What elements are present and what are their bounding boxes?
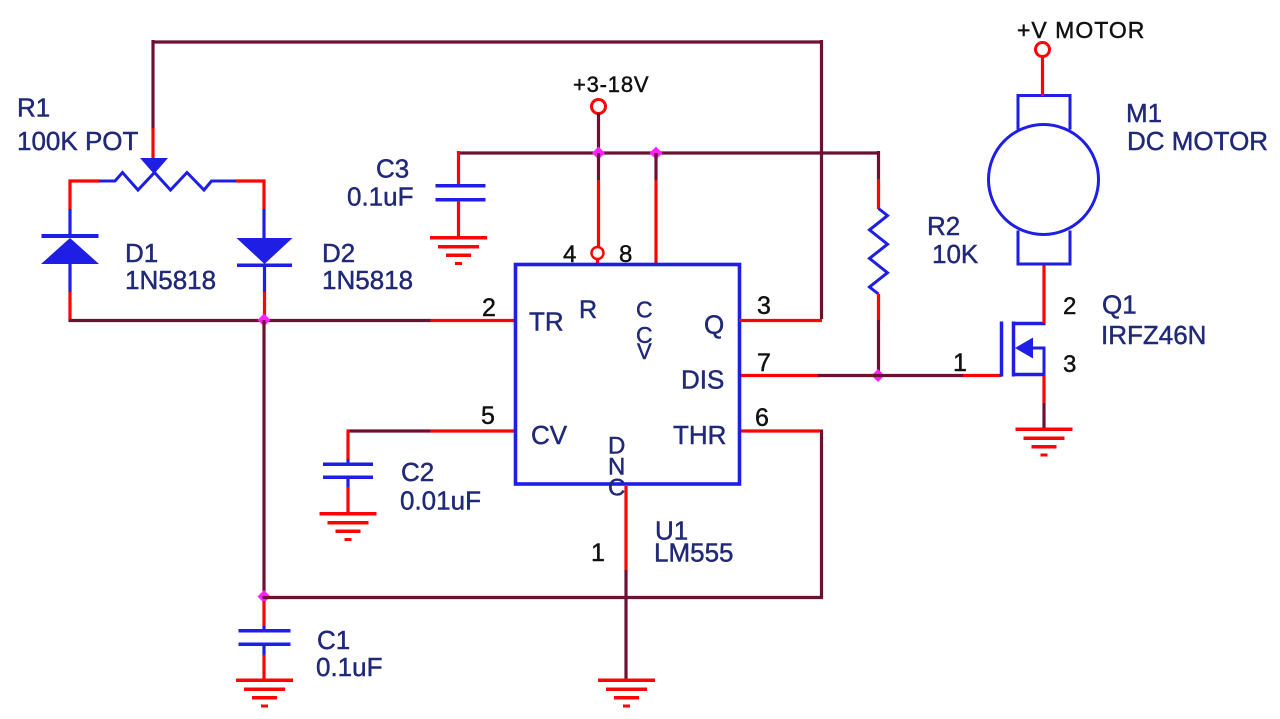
svg-text:V: V	[637, 339, 652, 364]
svg-text:C3: C3	[376, 154, 409, 184]
svg-text:D1: D1	[125, 238, 158, 268]
svg-text:R1: R1	[17, 93, 50, 123]
svg-text:CV: CV	[531, 420, 568, 450]
svg-text:TR: TR	[529, 307, 564, 337]
svg-text:2: 2	[1063, 293, 1076, 320]
svg-text:7: 7	[757, 349, 771, 377]
svg-text:10K: 10K	[932, 239, 979, 269]
svg-text:Q1: Q1	[1102, 290, 1137, 320]
svg-text:C: C	[608, 475, 625, 502]
svg-text:+V MOTOR: +V MOTOR	[1017, 17, 1145, 43]
svg-text:M1: M1	[1126, 98, 1162, 128]
svg-text:Q: Q	[704, 310, 724, 340]
svg-text:1: 1	[591, 539, 605, 567]
svg-text:100K POT: 100K POT	[17, 126, 139, 156]
svg-text:5: 5	[481, 402, 495, 430]
svg-text:2: 2	[482, 294, 496, 322]
svg-text:R2: R2	[927, 211, 960, 241]
svg-text:4: 4	[563, 241, 576, 268]
svg-text:THR: THR	[673, 420, 726, 450]
svg-text:C2: C2	[401, 457, 434, 487]
svg-text:1N5818: 1N5818	[322, 265, 413, 295]
svg-text:DIS: DIS	[681, 365, 724, 395]
svg-text:C1: C1	[317, 625, 350, 655]
svg-text:DC MOTOR: DC MOTOR	[1127, 126, 1268, 156]
svg-text:D2: D2	[322, 238, 355, 268]
svg-text:LM555: LM555	[654, 538, 734, 568]
svg-text:0.1uF: 0.1uF	[316, 652, 383, 682]
svg-text:3: 3	[1063, 351, 1076, 378]
svg-text:R: R	[579, 296, 597, 324]
svg-text:C: C	[636, 297, 653, 323]
svg-text:IRFZ46N: IRFZ46N	[1101, 320, 1206, 350]
svg-text:0.1uF: 0.1uF	[347, 182, 414, 212]
svg-text:6: 6	[755, 404, 769, 432]
svg-text:8: 8	[619, 241, 632, 268]
svg-text:1N5818: 1N5818	[125, 265, 216, 295]
svg-text:3: 3	[757, 292, 771, 320]
svg-text:1: 1	[953, 349, 967, 377]
svg-text:0.01uF: 0.01uF	[400, 486, 481, 516]
svg-text:+3-18V: +3-18V	[573, 72, 649, 97]
